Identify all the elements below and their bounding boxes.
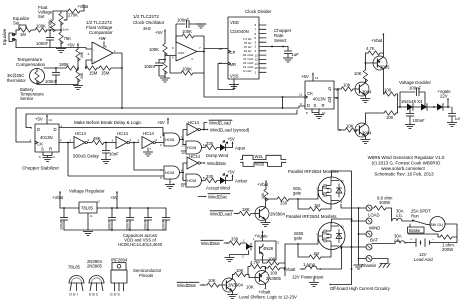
resistor 100K feedback top <box>176 29 204 73</box>
resistor 100 opto out <box>258 244 285 276</box>
svg-text:Brake: Brake <box>409 228 421 233</box>
resistor 330 gate drive upper <box>265 197 291 206</box>
svg-text:100K: 100K <box>149 47 159 52</box>
breaker 30A cb upper <box>392 209 412 222</box>
svg-text:10K: 10K <box>246 285 254 290</box>
label WindSBat in lower <box>177 282 207 288</box>
power +5V ff2 <box>301 73 319 81</box>
svg-text:+5V: +5V <box>157 120 165 125</box>
breaker 30A cb lower <box>372 234 405 244</box>
resistor 330 opto <box>229 237 246 246</box>
svg-text:20K: 20K <box>80 51 84 58</box>
svg-text:(5W GL): (5W GL) <box>430 223 444 227</box>
svg-text:10K: 10K <box>343 83 351 88</box>
svg-text:Off-board High Current Circuit: Off-board High Current Circuitry <box>330 286 391 291</box>
transistor Q5 3904 <box>355 113 376 139</box>
svg-text:+Vbat: +Vbat <box>257 182 269 187</box>
power +5V gates <box>157 118 169 125</box>
svg-text:HC08,HC14,4013,4040: HC08,HC14,4013,4040 <box>118 242 163 247</box>
inverter U4a HC14 <box>70 131 90 149</box>
svg-text:-: - <box>94 48 95 52</box>
svg-text:WindΣLoad (synced): WindΣLoad (synced) <box>210 128 250 133</box>
inverter U4d HC14 <box>187 120 204 136</box>
power +Vgate out <box>437 89 451 108</box>
wire S2 tap <box>341 247 352 249</box>
svg-text:500uS Delay: 500uS Delay <box>73 154 100 159</box>
power +Vbat shifter1 <box>257 180 269 189</box>
wire regulator rails <box>60 208 166 230</box>
svg-text:78L05: 78L05 <box>68 265 80 270</box>
wire gate3 out split <box>183 163 187 181</box>
svg-text:+Vgate: +Vgate <box>254 234 268 239</box>
resistor 100K feedback bottom <box>181 67 204 76</box>
svg-text:2mA: 2mA <box>63 28 69 32</box>
svg-text:4N26: 4N26 <box>263 246 274 251</box>
svg-text:1M: 1M <box>313 251 319 256</box>
svg-text:10K: 10K <box>208 278 216 283</box>
svg-text:(c) 2013 G. Forrest Cook WB0: (c) 2013 G. Forrest Cook WB0RIO <box>372 161 441 166</box>
gate U5d HC08 <box>181 174 205 188</box>
resistor 10K lower in <box>207 278 222 287</box>
mosfet pair M3 M4 <box>317 223 346 250</box>
resistor 10K base lower <box>345 124 357 133</box>
terminal WIND <box>358 231 372 237</box>
wire Q to 10K <box>334 88 341 90</box>
svg-text:1N4148 X3: 1N4148 X3 <box>401 99 423 104</box>
terminal LOAD plus <box>358 205 372 211</box>
transistor Q8 2N3905 <box>255 267 282 288</box>
LED D4 Aqua <box>220 137 246 152</box>
svg-text:+5V: +5V <box>227 170 235 175</box>
svg-text:11: 11 <box>299 93 302 97</box>
svg-text:3904: 3904 <box>362 131 372 136</box>
svg-text:HC14: HC14 <box>143 131 155 136</box>
svg-text:+5V: +5V <box>98 36 106 41</box>
resistor 100K divider bottom <box>163 59 167 78</box>
svg-text:Pinouts: Pinouts <box>139 273 153 278</box>
svg-text:14: 14 <box>49 118 53 122</box>
svg-text:c.b.: c.b. <box>394 238 401 243</box>
svg-text:100nF: 100nF <box>162 219 166 230</box>
svg-text:HC14: HC14 <box>75 131 87 136</box>
resistor 1M upper <box>298 199 331 211</box>
resistor 100K vertical <box>48 11 56 32</box>
wire inter-inverter node down <box>134 143 164 171</box>
svg-text:Aqua: Aqua <box>235 146 246 151</box>
svg-text:CK: CK <box>307 91 313 96</box>
capacitor bypass 1 <box>108 207 117 231</box>
svg-text:15M: 15M <box>89 71 98 76</box>
capacitor 100nF doubler <box>399 86 426 108</box>
resistor 6.8 ohm 300W <box>372 196 393 222</box>
capacitor 10nF delay <box>101 143 119 164</box>
svg-text:Parallel IRF2804 Mosfets: Parallel IRF2804 Mosfets <box>286 214 337 219</box>
ground chopper <box>39 152 55 162</box>
svg-text:HC14: HC14 <box>189 154 201 159</box>
power +Vbat regulator <box>52 191 64 208</box>
resistor 10K base upper <box>341 83 355 92</box>
resistor 180K <box>44 62 78 70</box>
lamp 5W GL <box>427 217 457 235</box>
svg-text:Set: Set <box>13 21 20 26</box>
package IRF2804 TO-220 <box>110 258 128 297</box>
capacitor 1uF doubler <box>447 107 460 127</box>
diode D1 1N4148 <box>401 99 423 111</box>
label WindSBat inverted <box>198 194 230 200</box>
switch 25A SPDT <box>411 209 431 225</box>
svg-text:1M: 1M <box>314 203 320 208</box>
svg-text:+5V: +5V <box>227 137 235 142</box>
svg-text:1M: 1M <box>20 32 26 37</box>
svg-text:Voltage Doubler: Voltage Doubler <box>399 80 432 85</box>
svg-text:3905: 3905 <box>380 65 390 70</box>
capacitor 100nF <box>36 29 54 47</box>
svg-text:+5V: +5V <box>67 43 75 48</box>
svg-text:D: D <box>307 103 310 108</box>
IC U2 4013N chopper stabilizer <box>30 124 63 152</box>
capacitor bypass 4 <box>162 208 171 230</box>
label WindSLoad synced <box>204 128 250 133</box>
svg-text:100nF: 100nF <box>144 64 156 69</box>
svg-text:HC08: HC08 <box>187 179 196 183</box>
resistor 10K pullup shifter1 <box>261 189 268 201</box>
power +Vgate opto <box>254 231 268 241</box>
svg-text:100nF: 100nF <box>45 79 57 84</box>
svg-text:Set: Set <box>38 14 45 19</box>
label WindSLoad <box>209 120 232 126</box>
svg-text:Sensor: Sensor <box>20 96 34 101</box>
svg-text:HC14: HC14 <box>117 131 129 136</box>
wire W2L gate <box>291 191 318 200</box>
svg-text:D: D <box>341 225 344 229</box>
svg-text:100: 100 <box>268 257 276 262</box>
svg-text:100K: 100K <box>36 24 46 29</box>
svg-text:HC08: HC08 <box>165 171 174 175</box>
capacitor bypass 3 <box>144 207 153 231</box>
svg-text:c.b.: c.b. <box>396 213 403 218</box>
resistor 10K interstage <box>232 268 255 290</box>
wire source rail <box>341 204 359 258</box>
svg-text:180K: 180K <box>59 62 69 67</box>
capacitor 100uF input <box>60 207 69 230</box>
svg-text:10nF: 10nF <box>109 152 119 157</box>
svg-text:WindΣBat: WindΣBat <box>201 241 221 246</box>
wire drain rail <box>332 171 352 269</box>
inverter U4e HC14 <box>187 154 227 169</box>
svg-text:100nF: 100nF <box>36 41 48 46</box>
resistor 330 aqua <box>202 141 221 150</box>
transistor Q4 3905 <box>365 34 390 95</box>
svg-text:MR: MR <box>230 62 237 67</box>
resistor 100 lower <box>376 107 398 120</box>
ground under 75K <box>56 49 66 53</box>
terminal chassis <box>358 256 372 262</box>
svg-text:6 mHz: 6 mHz <box>243 69 252 73</box>
IC U7 78L05 <box>79 200 101 219</box>
transistor Q7 2N3904 <box>222 275 244 295</box>
svg-text:+Vbat: +Vbat <box>371 38 383 43</box>
svg-text:Accept Wind: Accept Wind <box>206 186 230 191</box>
svg-text:2N3904: 2N3904 <box>270 212 286 217</box>
svg-text:VDD: VDD <box>230 20 239 25</box>
svg-text:Select: Select <box>274 38 287 43</box>
transistor Q3 3904 <box>355 80 372 99</box>
ground ff2 <box>306 109 326 119</box>
power +Vbat <box>77 4 89 11</box>
inverter U4b HC14 <box>112 131 140 149</box>
wire pin2 out <box>59 142 74 144</box>
wire Q down to gate <box>68 143 164 177</box>
svg-text:200W: 200W <box>442 247 453 252</box>
svg-text:WindΣBat: WindΣBat <box>208 195 228 200</box>
resistor 100K <box>35 24 47 33</box>
svg-text:IC1b: IC1b <box>178 51 185 55</box>
ground Q6 <box>260 223 270 227</box>
svg-text:G D S: G D S <box>110 293 120 297</box>
resistor 100 shifter out <box>265 266 286 276</box>
svg-text:S: S <box>41 147 44 152</box>
svg-text:1 Amp: 1 Amp <box>303 262 316 267</box>
svg-text:100K: 100K <box>182 67 192 72</box>
svg-text:48K: 48K <box>93 136 101 141</box>
resistor 20K upper <box>76 47 84 68</box>
node WindSLoad out <box>204 123 207 130</box>
svg-text:gate: gate <box>294 236 303 241</box>
fuse 1 Amp <box>300 262 321 270</box>
svg-text:+Vbat: +Vbat <box>52 195 64 200</box>
svg-text:Level Shifters: Logic to 12-23: Level Shifters: Logic to 12-23V <box>239 295 297 300</box>
diode D2 1N4148 <box>421 104 427 111</box>
svg-text:330: 330 <box>231 237 239 242</box>
svg-text:12V Power Input: 12V Power Input <box>292 275 324 280</box>
wire line B junction up <box>282 97 284 108</box>
wire Qbar down <box>334 89 345 130</box>
svg-text:100nF: 100nF <box>108 219 112 230</box>
svg-text:78L05: 78L05 <box>81 206 93 211</box>
terminal BAT plus <box>352 244 373 250</box>
wire gate1 out split <box>183 130 187 145</box>
resistor 100K divider top <box>149 44 167 60</box>
power +Vbat driver <box>371 33 384 43</box>
svg-text:Clock Divider: Clock Divider <box>245 9 272 14</box>
svg-text:13: 13 <box>182 144 186 148</box>
wire MR <box>218 64 234 90</box>
wire equalize return y47.5 <box>16 48 92 50</box>
svg-text:WindΣBat: WindΣBat <box>207 161 227 166</box>
resistor 15M second <box>97 66 123 76</box>
wire oscillator out <box>197 49 228 52</box>
svg-text:100uF: 100uF <box>60 219 64 230</box>
wire D2 tap <box>332 219 352 223</box>
mosfet pair M1 M2 <box>317 177 346 204</box>
IC CD4040N <box>219 17 266 79</box>
potentiometer Equalize Set 1M <box>13 16 31 37</box>
wire doubler rail <box>398 106 450 108</box>
terminal LOAD minus <box>351 218 372 224</box>
svg-text:+5V: +5V <box>155 30 163 35</box>
svg-text:Comparator: Comparator <box>89 30 113 35</box>
svg-text:IRF2804: IRF2804 <box>111 258 128 263</box>
ground oscillator divider <box>160 78 170 82</box>
svg-text:+: + <box>94 59 96 63</box>
resistor 48K <box>88 136 117 145</box>
svg-text:330: 330 <box>280 201 288 206</box>
resistor 330 amber <box>202 174 221 183</box>
node line C <box>26 110 297 128</box>
diode D3 1N4148 <box>433 104 443 111</box>
capacitor bypass 2 <box>126 207 135 231</box>
svg-text:HC08: HC08 <box>187 146 196 150</box>
svg-text:4.7K: 4.7K <box>250 260 259 265</box>
svg-text:HC14: HC14 <box>188 120 200 125</box>
svg-text:LOAD: LOAD <box>368 213 380 218</box>
transistor Q6 2N3904 <box>255 198 286 222</box>
svg-text:100uF: 100uF <box>413 118 425 123</box>
svg-text:thermistor: thermistor <box>7 78 26 83</box>
ground chassis left <box>354 259 364 270</box>
svg-text:Clock Oscillator: Clock Oscillator <box>133 20 165 25</box>
power +5V chopper <box>35 115 52 124</box>
svg-text:18K: 18K <box>242 207 250 212</box>
resistor 18K <box>239 207 255 216</box>
ground regulator <box>83 232 93 236</box>
svg-text:Equalize: Equalize <box>2 28 7 45</box>
svg-text:CP: CP <box>230 50 236 55</box>
svg-text:W6R6 Wind Generator Regulator: W6R6 Wind Generator Regulator V1.0 <box>368 155 445 160</box>
gate U5c HC08 <box>160 166 183 189</box>
capacitor 100nF oscillator <box>144 60 165 77</box>
svg-text:3Hz: 3Hz <box>143 26 152 31</box>
svg-text:E B C: E B C <box>89 293 99 297</box>
wire rate select <box>266 46 288 48</box>
svg-text:2N3905: 2N3905 <box>266 276 282 281</box>
svg-text:Dump Wind: Dump Wind <box>206 153 229 158</box>
svg-text:2N3905: 2N3905 <box>87 264 103 269</box>
LED D5 Amber <box>220 170 248 185</box>
svg-text:D: D <box>54 127 57 132</box>
svg-text:gate: gate <box>293 191 302 196</box>
svg-text:W2B: W2B <box>255 162 264 167</box>
svg-text:Compensation: Compensation <box>16 62 46 67</box>
package 2N3904 TO-92 <box>87 259 104 297</box>
inverter U4c HC14 <box>138 131 165 156</box>
capacitor 1uF <box>283 47 299 63</box>
svg-text:100K: 100K <box>48 19 53 29</box>
svg-text:Chopper Stabilizer: Chopper Stabilizer <box>22 166 60 171</box>
ground Q3 emitter <box>360 99 370 103</box>
capacitor 100nF thermistor <box>45 67 60 84</box>
wire offboard arrow <box>329 269 352 286</box>
svg-text:270K: 270K <box>68 13 78 18</box>
power +5V regulator out <box>110 191 118 209</box>
svg-text:22V: 22V <box>440 94 448 99</box>
svg-text:VSS: VSS <box>230 74 239 79</box>
potentiometer Float Voltage Set <box>38 5 69 32</box>
ground Q7 <box>227 295 237 299</box>
capacitor 100uF doubler <box>405 106 425 128</box>
svg-text:2N3904: 2N3904 <box>228 283 244 288</box>
svg-text:100: 100 <box>384 88 392 93</box>
svg-text:Schematic Rev: 16 Feb, 2013: Schematic Rev: 16 Feb, 2013 <box>374 172 434 177</box>
svg-text:WindΣBat: WindΣBat <box>177 283 197 288</box>
resistor 1M lower <box>298 244 331 259</box>
svg-text:100nF: 100nF <box>409 86 421 91</box>
svg-text:Chassis: Chassis <box>361 263 376 268</box>
wire W2B gate <box>285 237 318 245</box>
svg-text:11: 11 <box>219 61 222 65</box>
svg-text:+Vbat: +Vbat <box>77 4 89 9</box>
svg-text:4013N: 4013N <box>313 97 326 102</box>
wire fuse to rail <box>321 247 342 269</box>
wire comparator output to logic <box>113 53 122 108</box>
svg-text:20K: 20K <box>80 72 84 79</box>
svg-text:+: + <box>410 238 412 242</box>
capacitor 100nF feedback top <box>176 18 206 43</box>
ground power input <box>309 277 319 287</box>
svg-text:100: 100 <box>270 271 278 276</box>
label WindSBat in opto <box>201 240 229 246</box>
svg-text:WindΣLoad: WindΣLoad <box>210 212 232 217</box>
ground VSS <box>233 79 235 84</box>
ground Q5 emitter <box>360 140 370 144</box>
switch brake contact <box>408 224 425 233</box>
svg-text:10: 10 <box>219 47 223 51</box>
IC U3 4013N chopper flip-flop <box>299 81 339 109</box>
svg-text:4.7K: 4.7K <box>366 46 375 51</box>
package 78L05 TO-92 <box>68 265 84 297</box>
resistor 20K lower <box>76 67 84 84</box>
resistor 270K <box>67 9 84 18</box>
svg-text:10K: 10K <box>261 192 265 199</box>
power +5V divider <box>67 43 79 48</box>
waveform W2B <box>241 162 287 167</box>
svg-text:10: 10 <box>181 184 185 188</box>
ground chassis frame <box>372 259 390 268</box>
svg-text:10: 10 <box>322 111 326 115</box>
power +Vbatt shifter out <box>258 287 271 294</box>
svg-text:10K: 10K <box>346 124 354 129</box>
resistor 10K collector pullup <box>354 67 368 82</box>
connector J1 Equalize <box>2 28 16 47</box>
resistor 4.7K <box>365 46 384 67</box>
power +5V oscillator <box>155 29 166 43</box>
node main wire y30 <box>16 29 61 31</box>
svg-text:R: R <box>322 103 325 108</box>
svg-text:4013N: 4013N <box>40 135 53 140</box>
svg-text:Voltage Regulator: Voltage Regulator <box>69 189 105 194</box>
resistor 15M <box>85 66 98 76</box>
svg-text:1uF: 1uF <box>292 52 300 57</box>
svg-text:CD4040N: CD4040N <box>230 29 249 34</box>
svg-text:12: 12 <box>182 151 186 155</box>
svg-text:R: R <box>49 147 52 152</box>
svg-text:S: S <box>314 103 317 108</box>
svg-text:10K: 10K <box>354 71 362 76</box>
svg-text:D: D <box>341 180 344 184</box>
wire brake run line <box>408 234 440 237</box>
svg-text:100K: 100K <box>182 29 192 34</box>
svg-text:1uF: 1uF <box>455 117 460 121</box>
svg-text:+5V: +5V <box>110 195 118 200</box>
waveform W2L <box>241 154 287 159</box>
svg-text:www.solorb.com/elect: www.solorb.com/elect <box>381 166 425 171</box>
svg-text:Amber: Amber <box>235 179 248 184</box>
svg-text:75K: 75K <box>64 36 72 41</box>
resistor 100 upper <box>383 88 397 108</box>
svg-text:−: − <box>432 238 434 242</box>
svg-text:BAT: BAT <box>370 238 378 243</box>
svg-text:100nF: 100nF <box>144 219 148 230</box>
